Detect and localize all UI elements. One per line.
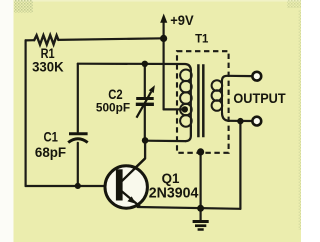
svg-text:OUTPUT: OUTPUT — [233, 91, 286, 106]
transistor Q1 — [105, 159, 147, 209]
wire C2 branch upper — [144, 64, 146, 97]
wire shield ground — [200, 152, 202, 208]
junction node collector — [142, 137, 149, 144]
wire output drop — [239, 121, 241, 209]
transformer T1 shield dashed box — [177, 51, 229, 153]
transformer T1 primary winding — [180, 70, 192, 137]
resistor R1 — [34, 35, 58, 45]
svg-text:2N3904: 2N3904 — [149, 186, 199, 202]
wire C1 branch lower — [77, 143, 79, 186]
junction node primary tap — [182, 106, 188, 112]
wire tap to primary — [164, 108, 185, 110]
capacitor C1 — [68, 134, 88, 143]
wire ground stub — [200, 208, 202, 221]
wire emitter lead — [122, 192, 140, 207]
svg-text:Q1: Q1 — [162, 170, 180, 186]
wire collector horizontal — [145, 140, 185, 143]
junction node C1 base rail — [75, 183, 81, 189]
wire C1 branch upper — [77, 64, 79, 132]
transformer T1 core — [198, 64, 203, 137]
dither patch top-left — [14, 0, 33, 13]
dither patch top-right — [287, 0, 301, 8]
top light strip — [13, 0, 301, 2]
junction node shield — [197, 148, 204, 155]
svg-text:500pF: 500pF — [96, 100, 131, 114]
svg-text:+9V: +9V — [170, 13, 193, 28]
junction node output bottom — [237, 118, 243, 124]
junction node +9V rail — [160, 35, 167, 42]
junction node ground rail — [197, 205, 204, 212]
svg-text:330K: 330K — [32, 60, 64, 76]
wire top rail left of R1 — [26, 39, 35, 41]
white scan margin left — [0, 0, 14, 242]
wire ground rail — [138, 207, 241, 209]
wire C2 branch lower — [144, 106, 146, 140]
transformer T1 secondary winding — [212, 80, 223, 113]
wire primary bottom curve — [185, 126, 191, 141]
wire top rail right of R1 — [58, 38, 163, 40]
wire inner top to transformer — [78, 64, 191, 71]
wire collector lead — [122, 140, 146, 181]
wire +9V drop — [163, 22, 165, 110]
svg-text:C1: C1 — [44, 130, 58, 146]
output terminal top — [252, 72, 261, 81]
wire secondary bottom — [222, 113, 252, 121]
svg-text:68pF: 68pF — [35, 145, 67, 161]
junction node tank top — [142, 61, 148, 67]
output terminal bottom — [252, 117, 261, 126]
wire left rail — [25, 40, 27, 186]
+9V supply arrow — [160, 14, 167, 23]
wire secondary top — [222, 76, 252, 81]
ground — [193, 222, 209, 230]
dither streak right edge — [299, 10, 301, 230]
svg-text:T1: T1 — [195, 32, 208, 46]
wire base rail bottom left — [26, 185, 105, 187]
capacitor C2 (variable) — [136, 85, 155, 118]
